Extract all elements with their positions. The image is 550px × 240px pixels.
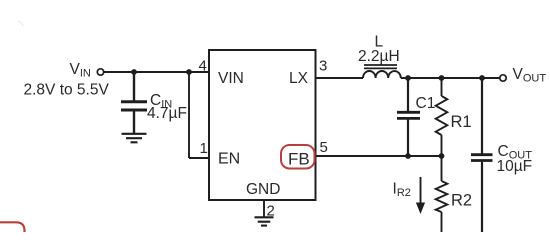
- svg-text:LX: LX: [289, 70, 309, 87]
- wire R2 bottom lead: [441, 212, 443, 232]
- svg-text:2.8V to 5.5V: 2.8V to 5.5V: [24, 82, 110, 99]
- node junction CIN: [131, 69, 137, 75]
- ground (below CIN): [122, 134, 147, 143]
- node junction R1: [439, 75, 445, 81]
- svg-text:GND: GND: [246, 181, 280, 198]
- wire CIN to ground: [133, 111, 135, 133]
- resistor R2: [436, 181, 448, 212]
- capacitor C1: [397, 112, 420, 118]
- capacitor COUT: [471, 155, 493, 161]
- red callout arc bottom-left corner: [0, 222, 25, 236]
- node junction EN branch: [186, 69, 192, 75]
- wire CIN branch: [133, 72, 135, 101]
- svg-text:EN: EN: [218, 151, 240, 168]
- resistor R1: [436, 96, 448, 135]
- wire EN branch horizontal: [189, 157, 209, 159]
- svg-text:10µF: 10µF: [497, 158, 533, 175]
- svg-text:2.2µH: 2.2µH: [358, 48, 400, 65]
- svg-text:VIN: VIN: [218, 70, 244, 87]
- wire R2 top lead: [441, 156, 443, 181]
- node junction COUT: [479, 75, 485, 81]
- node VIN terminal: [97, 69, 103, 75]
- svg-text:3: 3: [319, 58, 327, 75]
- inductor L: [363, 65, 401, 78]
- wire EN branch vertical: [188, 72, 190, 158]
- svg-text:4: 4: [199, 58, 207, 75]
- svg-text:C1: C1: [416, 95, 436, 112]
- svg-text:R1: R1: [451, 113, 472, 131]
- wire COUT branch top: [481, 78, 483, 154]
- svg-text:R2: R2: [451, 192, 472, 210]
- wire R1 bottom lead: [441, 135, 443, 156]
- node junction C1: [405, 75, 411, 81]
- wire C1 branch top: [407, 78, 409, 111]
- svg-text:2: 2: [267, 203, 275, 220]
- faint smudge artifact top-left: [18, 21, 23, 26]
- wire VIN rail: [104, 71, 209, 73]
- node VOUT terminal: [500, 75, 506, 81]
- wire C1 branch bottom: [407, 120, 409, 157]
- wire LX pin 3: [316, 77, 364, 79]
- capacitor CIN: [121, 102, 147, 110]
- wire R1 top lead: [441, 78, 443, 96]
- wire FB rail pin 5: [316, 155, 442, 157]
- svg-text:1: 1: [200, 140, 208, 157]
- svg-text:5: 5: [320, 139, 328, 156]
- arrow IR2 (current direction): [416, 177, 425, 214]
- highlight red oval around FB: [281, 145, 315, 169]
- node junction R1-R2-FB: [439, 153, 445, 159]
- svg-text:4.7µF: 4.7µF: [147, 105, 187, 122]
- wire COUT branch bottom: [481, 162, 483, 232]
- node junction C1-FB: [405, 153, 411, 159]
- svg-text:FB: FB: [288, 150, 310, 169]
- wire output rail: [401, 77, 500, 79]
- wire GND pin 2 stub: [263, 200, 265, 217]
- ground (below IC GND pin): [255, 217, 274, 225]
- op-amp U1 (regulator IC body): [209, 50, 316, 200]
